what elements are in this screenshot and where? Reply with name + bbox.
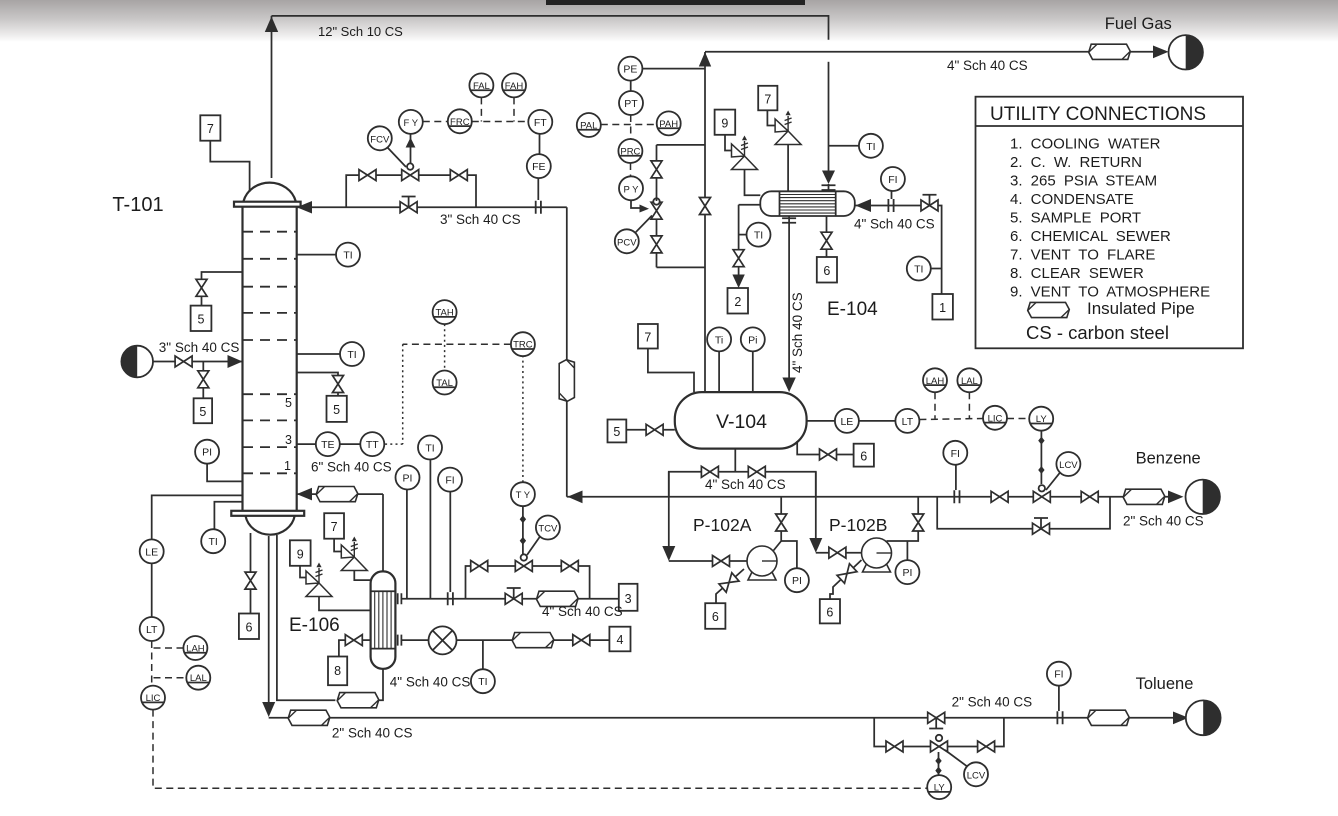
top gradient band: [0, 0, 1338, 42]
toluene stream circle: [1186, 700, 1221, 735]
svg-text:LY: LY: [1036, 414, 1048, 425]
svg-text:FT: FT: [534, 117, 547, 129]
arrow on FY signal: [406, 138, 416, 148]
box 8 (clear sewer): [328, 657, 347, 686]
instrument LAL (V-104): [957, 368, 981, 392]
arrow reflux into column: [297, 201, 312, 214]
gate valve on vertical main: [700, 198, 711, 215]
diamond on LY signal 2: [1038, 466, 1044, 474]
instrument TE: [316, 432, 340, 456]
orifice FI (CW supply): [888, 199, 893, 212]
instrument PY: [619, 176, 643, 200]
svg-text:FRC: FRC: [450, 117, 470, 128]
gate valve w/stem on steam line: [505, 588, 522, 604]
wire PSV7b inlet: [354, 571, 370, 581]
svg-text:6: 6: [246, 621, 253, 635]
steam trap (condensate): [429, 626, 457, 654]
control valve LCV (toluene): [931, 735, 948, 752]
box 6 (chemical sewer, pump A): [705, 603, 725, 629]
insulated pipe on reboiler feed: [337, 693, 379, 708]
instrument TI (CW supply): [907, 257, 931, 281]
arrow down pump A suction: [662, 546, 675, 561]
signal TY to TCV valve: [522, 506, 524, 554]
insulated pipe on steam line: [537, 591, 579, 606]
svg-text:LAH: LAH: [926, 376, 945, 387]
wire steam supply line: [401, 598, 618, 600]
wire overhead top run: [272, 16, 829, 40]
svg-text:2: 2: [734, 295, 741, 309]
svg-text:6: 6: [826, 606, 833, 620]
wire E-104 condensate outlet: [788, 216, 790, 385]
instrument TI (upper column): [336, 243, 360, 267]
svg-text:5: 5: [613, 425, 620, 439]
wire V-104 to LE: [807, 420, 835, 422]
E-104 top nozzle flange: [822, 184, 836, 191]
legend insulated pipe symbol: [1028, 302, 1070, 317]
instrument PCV: [615, 229, 639, 253]
wire benzene bypass: [937, 497, 1110, 529]
svg-text:P-102B: P-102B: [829, 515, 887, 535]
wire V-104 drain: [797, 441, 853, 455]
wire TI tap CW supply: [931, 268, 942, 270]
drum V-104: [675, 392, 807, 449]
svg-text:P-102A: P-102A: [693, 515, 752, 535]
wire column bottoms drain: [250, 533, 252, 614]
orifice FE on reflux line: [536, 201, 541, 214]
svg-text:5: 5: [199, 405, 206, 419]
instrument LIC (column): [141, 686, 165, 710]
svg-text:FAL: FAL: [473, 81, 490, 92]
wire Ti stem: [718, 351, 720, 392]
instrument LY (benzene): [1029, 407, 1053, 431]
instrument TY: [511, 482, 535, 506]
svg-text:7: 7: [331, 520, 338, 534]
valve on E-104 drain: [821, 232, 832, 249]
wire fuel gas vertical main: [704, 52, 706, 392]
signal LT to LIC dashed: [919, 419, 983, 420]
valve on bottoms drain: [245, 572, 256, 589]
column T-101 shell: [231, 183, 304, 535]
exchanger E-104: [760, 191, 855, 216]
svg-text:9: 9: [297, 547, 304, 561]
svg-text:PT: PT: [624, 98, 638, 110]
svg-text:2" Sch 40 CS: 2" Sch 40 CS: [1123, 514, 1204, 529]
svg-text:PAL: PAL: [580, 121, 597, 132]
svg-text:7: 7: [764, 92, 771, 106]
valve pump A drain: [719, 573, 739, 592]
svg-text:TI: TI: [866, 141, 875, 153]
svg-text:4" Sch 40 CS: 4" Sch 40 CS: [705, 477, 786, 492]
box 3 (265 psia steam): [619, 584, 638, 611]
valve on V-104 drain: [820, 449, 837, 460]
signal TCV to valve: [527, 537, 540, 556]
wire FI stem benzene: [955, 465, 957, 490]
svg-text:LAL: LAL: [190, 673, 207, 684]
svg-text:4: 4: [617, 633, 624, 647]
svg-text:TAH: TAH: [435, 308, 453, 319]
wire TE-TT: [340, 443, 361, 445]
wire LE to column: [152, 495, 243, 539]
insulated pipe on toluene (left): [288, 710, 330, 725]
valve suction header left: [701, 466, 718, 477]
insulated pipe on condensate: [512, 633, 554, 648]
svg-text:2" Sch 40 CS: 2" Sch 40 CS: [952, 695, 1033, 710]
svg-text:FI: FI: [1054, 669, 1063, 681]
svg-text:LE: LE: [145, 546, 158, 558]
wire PSV7b outlet to box: [334, 539, 341, 552]
instrument PAH: [657, 111, 681, 135]
svg-text:7. VENT TO FLARE: 7. VENT TO FLARE: [1010, 247, 1155, 264]
svg-text:LCV: LCV: [967, 770, 986, 781]
arrow into box 2: [732, 275, 744, 289]
box 7 (vent to flare, column top): [200, 115, 220, 140]
wire E-106 vapor return riser: [382, 494, 384, 571]
svg-text:LCV: LCV: [1059, 460, 1078, 471]
svg-text:LIC: LIC: [146, 693, 161, 704]
svg-text:Fuel Gas: Fuel Gas: [1105, 15, 1172, 33]
svg-text:TI: TI: [914, 264, 923, 276]
svg-text:8. CLEAR SEWER: 8. CLEAR SEWER: [1010, 265, 1144, 282]
svg-text:FAH: FAH: [505, 81, 524, 92]
wire pump suction header: [734, 449, 736, 472]
svg-text:P Y: P Y: [624, 184, 640, 195]
svg-text:V-104: V-104: [716, 411, 767, 433]
wire reflux riser (from benzene header): [566, 207, 568, 497]
svg-text:T-101: T-101: [112, 194, 163, 216]
wire fuel gas header: [705, 51, 1166, 53]
wire TI tap CW return: [739, 234, 747, 236]
box 5 (sample port, right): [327, 396, 347, 422]
instrument TI (mid column): [340, 342, 364, 366]
svg-text:2" Sch 40 CS: 2" Sch 40 CS: [332, 726, 413, 741]
arrow fuel gas outlet: [1153, 46, 1169, 59]
instrument TI (steam): [418, 436, 442, 460]
svg-text:4" Sch 40 CS: 4" Sch 40 CS: [390, 675, 471, 690]
instrument TRC: [511, 332, 535, 356]
svg-text:UTILITY CONNECTIONS: UTILITY CONNECTIONS: [990, 104, 1206, 125]
arrow feed into column: [228, 355, 243, 368]
svg-text:PI: PI: [902, 567, 912, 579]
svg-text:PCV: PCV: [617, 237, 637, 248]
wire right sample line: [297, 373, 338, 396]
svg-text:9: 9: [721, 117, 728, 131]
wire TI stem steam: [429, 460, 431, 599]
box 5 (sample port, feed): [194, 398, 213, 423]
wire pump B drain: [830, 560, 862, 599]
wire PI-B stem: [906, 541, 908, 560]
arrow vapor return into column: [297, 488, 312, 501]
wire FI stem steam: [449, 492, 451, 592]
instrument LT (V-104): [895, 409, 919, 433]
svg-text:FI: FI: [888, 174, 897, 186]
fuel gas stream circle: [1169, 35, 1203, 69]
svg-text:PI: PI: [403, 473, 413, 485]
signal PT-PRC dashed: [630, 115, 632, 139]
box 4 (condensate): [609, 627, 630, 652]
wire box7 to column top head: [210, 141, 249, 192]
instrument LAH (V-104): [923, 368, 947, 392]
instrument PE: [618, 57, 642, 81]
relief valve PSV to atmosphere (E-106): [306, 563, 332, 597]
wire overhead drop to E-104: [828, 62, 830, 177]
valve toluene bypass right: [978, 741, 995, 752]
arrow CW into E-104: [855, 199, 871, 212]
wire reboiler feed to E-106 bottom: [379, 669, 383, 700]
wire E-104 CW return drop: [739, 205, 761, 282]
instrument Ti (V-104): [707, 327, 731, 351]
control valve TCV body: [515, 554, 532, 571]
wire PCV station control leg: [656, 145, 658, 268]
valve on upper left sample line: [196, 279, 207, 296]
box 6 (chemical sewer, E-104): [817, 257, 837, 283]
box 6 (chemical sewer, V-104): [854, 444, 874, 467]
arrow reflux takeoff (left end): [568, 491, 583, 504]
wire FE to orifice: [537, 178, 539, 200]
instrument PI (pump A): [785, 568, 809, 592]
svg-text:LT: LT: [146, 624, 158, 636]
instrument LE (column): [140, 539, 164, 563]
instrument FAL: [469, 73, 493, 97]
diamond on TY signal 2: [520, 537, 526, 545]
instrument LAL (column): [186, 666, 210, 690]
wire PE tap: [642, 68, 705, 70]
svg-text:PI: PI: [202, 447, 212, 459]
wire Pi stem: [752, 351, 754, 392]
relief valve PSV to flare (E-106): [341, 537, 367, 571]
instrument PRC: [618, 139, 642, 163]
control valve LCV (benzene): [1033, 485, 1050, 502]
signal LIC-LY dashed: [1007, 418, 1029, 420]
wire PI stem steam: [406, 490, 408, 599]
svg-text:1: 1: [939, 301, 946, 315]
svg-text:TI: TI: [754, 230, 763, 242]
svg-text:3" Sch 40 CS: 3" Sch 40 CS: [159, 340, 240, 355]
svg-text:8: 8: [334, 664, 341, 678]
svg-text:TI: TI: [425, 443, 434, 455]
instrument LCV (benzene): [1056, 452, 1080, 476]
instrument TAL: [433, 371, 457, 395]
wire PI to column: [207, 464, 242, 482]
svg-text:6: 6: [860, 450, 867, 464]
svg-text:FI: FI: [445, 475, 454, 487]
instrument LCV (toluene): [964, 762, 988, 786]
svg-text:PAH: PAH: [659, 119, 678, 130]
svg-text:PE: PE: [623, 64, 637, 76]
svg-text:FE: FE: [532, 161, 545, 173]
gate valve w/stem on reflux line: [400, 197, 417, 213]
signal FCV to valve: [388, 148, 407, 168]
svg-text:F Y: F Y: [403, 118, 418, 129]
svg-text:T Y: T Y: [516, 490, 531, 501]
svg-text:FI: FI: [951, 448, 960, 460]
wire E-104 shell drain: [826, 216, 828, 257]
svg-text:3" Sch 40 CS: 3" Sch 40 CS: [440, 212, 521, 227]
wire FT-FE: [539, 134, 541, 154]
svg-text:6" Sch 40 CS: 6" Sch 40 CS: [311, 460, 392, 475]
wire toluene product line: [269, 717, 1186, 719]
svg-text:4" Sch 40 CS: 4" Sch 40 CS: [947, 58, 1028, 73]
wire PSV9b outlet to box: [300, 566, 306, 578]
arrow down pump B suction: [809, 538, 822, 553]
valve pump B discharge: [913, 514, 924, 531]
wire bottoms product drop: [268, 536, 270, 703]
gate valve w/stem toluene: [928, 712, 945, 728]
valve left TCV bypass: [471, 561, 488, 572]
svg-text:5: 5: [333, 403, 340, 417]
wire PE-PT: [630, 81, 632, 91]
signal LCV to valve (toluene): [945, 750, 967, 766]
gate valve lower on control leg: [651, 236, 662, 253]
gate valve w/stem benzene bypass: [1033, 518, 1050, 534]
wire TI stem condensate: [482, 640, 484, 669]
svg-text:4" Sch 40 CS: 4" Sch 40 CS: [854, 217, 935, 232]
signal FAL drop dashed: [480, 97, 482, 121]
valve on CW return: [733, 250, 744, 267]
orifice FI (steam): [448, 592, 453, 605]
signal PCV to valve: [635, 216, 652, 233]
instrument PI (pump B): [895, 560, 919, 584]
arrow down into E-104: [822, 171, 835, 185]
signal FY to FCV valve: [410, 134, 412, 164]
column trays (dashed): [243, 232, 296, 474]
svg-text:PRC: PRC: [620, 147, 640, 158]
wire E-106 blowdown: [362, 639, 371, 641]
instrument FI (benzene): [943, 441, 967, 465]
svg-text:5. SAMPLE PORT: 5. SAMPLE PORT: [1010, 210, 1141, 227]
wire feed sample tee: [202, 362, 204, 399]
wire pump B suction line: [816, 552, 862, 554]
diamond on LY signal 1: [1038, 437, 1044, 445]
signal LCV to valve: [1046, 473, 1060, 490]
reboiler E-106: [371, 571, 396, 668]
instrument LT (column): [140, 617, 164, 641]
signal LIC to LY (long dashed): [153, 710, 927, 789]
pump P-102B: [862, 538, 892, 572]
diamond on toluene LY signal 2: [935, 767, 941, 775]
valve on feed line: [175, 356, 192, 367]
instrument FAH: [502, 73, 526, 97]
valve on V-104 sample: [646, 424, 663, 435]
valve right on FCV bypass: [450, 170, 467, 181]
box 7 (vent to flare, E-104): [758, 86, 777, 111]
wire TI mid tap: [297, 353, 340, 355]
wire TE tap at tray 3: [297, 443, 316, 445]
box 1 (cooling water): [932, 294, 953, 320]
black title bar fragment: [546, 0, 805, 5]
instrument TAH: [433, 300, 457, 324]
svg-text:TRC: TRC: [513, 340, 533, 351]
flange on condensate outlet: [782, 218, 796, 223]
wire CW supply line: [856, 206, 942, 295]
svg-text:6: 6: [823, 264, 830, 278]
box 5 (sample port, V-104): [608, 420, 627, 443]
svg-text:5: 5: [198, 313, 205, 327]
signal PY to PCV valve: [631, 200, 642, 208]
arrow condensate into V-104: [782, 378, 795, 393]
box 2 (CW return): [728, 288, 749, 314]
svg-text:2. C. W. RETURN: 2. C. W. RETURN: [1010, 154, 1142, 171]
box 6 (chemical sewer, pump B): [820, 599, 840, 623]
wire TI tap to overhead: [829, 145, 859, 147]
signal FAH drop dashed: [513, 97, 515, 121]
insulated pipe on benzene: [1123, 489, 1165, 504]
legend box UTILITY CONNECTIONS: [976, 97, 1244, 349]
svg-text:LY: LY: [934, 783, 946, 794]
valve benzene right of LCV: [1081, 491, 1098, 502]
valve toluene bypass left: [886, 741, 903, 752]
feed stream source circle: [121, 346, 153, 378]
wire TCV bypass loop: [466, 566, 590, 599]
valve suction header right: [748, 466, 765, 477]
instrument LY (toluene): [927, 775, 951, 799]
wire LE-LT: [859, 420, 896, 422]
wire FI stem toluene: [1058, 686, 1060, 711]
box 7 (vent to flare, V-104): [638, 324, 658, 349]
svg-text:1: 1: [284, 459, 291, 473]
wire PSV7 inlet: [787, 145, 789, 192]
relief valve PSV to flare (E-104): [775, 111, 801, 145]
control valve FCV body: [402, 163, 419, 180]
svg-text:Ti: Ti: [715, 334, 723, 346]
svg-text:Insulated Pipe: Insulated Pipe: [1087, 299, 1195, 318]
svg-text:TI: TI: [343, 250, 352, 262]
signal TT riser dotted: [384, 344, 402, 444]
instrument FI (CW supply): [881, 167, 905, 191]
orifice FI (toluene): [1057, 711, 1062, 724]
wire PSV9 outlet to box: [725, 135, 732, 151]
valve pump A discharge: [776, 514, 787, 531]
svg-text:6: 6: [712, 610, 719, 624]
instrument FY: [399, 110, 423, 134]
arrow PY signal: [640, 205, 650, 213]
wire TI upper tap: [297, 254, 336, 256]
instrument TI (CW return): [747, 223, 771, 247]
wire pump A suction drop: [668, 472, 670, 548]
diamond on TY signal 1: [520, 515, 526, 523]
valve pump B drain: [837, 564, 857, 584]
instrument PAL: [577, 113, 601, 137]
relief valve PSV to atmosphere (E-104): [732, 136, 758, 170]
svg-text:1. COOLING WATER: 1. COOLING WATER: [1010, 136, 1161, 153]
instrument LIC (V-104): [983, 406, 1007, 430]
signal FY-FRC dashed: [423, 121, 448, 123]
valve pump A suction: [713, 556, 730, 567]
svg-text:4. CONDENSATE: 4. CONDENSATE: [1010, 191, 1134, 208]
instrument FE: [527, 154, 551, 178]
benzene stream circle: [1186, 480, 1220, 514]
wire bottoms to reboiler: [277, 535, 336, 700]
wire pump A drain: [716, 569, 744, 603]
wire TI to column: [214, 502, 242, 529]
svg-text:TT: TT: [366, 439, 379, 451]
box 7 (vent to flare, E-106): [324, 513, 344, 539]
valve on condensate: [573, 635, 590, 646]
wire box5 to V-104: [626, 429, 675, 431]
wire vapor return to column: [297, 493, 383, 495]
instrument LE (V-104): [835, 409, 859, 433]
svg-text:TI: TI: [347, 349, 356, 361]
signal PRC-PY dashed: [630, 163, 632, 176]
arrow toluene outlet: [1173, 712, 1189, 725]
svg-text:LT: LT: [902, 416, 914, 428]
pump P-102A: [747, 546, 777, 580]
instrument TI (overhead line): [859, 134, 883, 158]
signal LAH drop dashed: [934, 392, 936, 418]
valve benzene left of LCV: [991, 491, 1008, 502]
valve on feed sample line: [198, 371, 209, 388]
wire PSV7 outlet to box: [767, 110, 775, 125]
arrow down on bottoms product: [262, 702, 275, 717]
